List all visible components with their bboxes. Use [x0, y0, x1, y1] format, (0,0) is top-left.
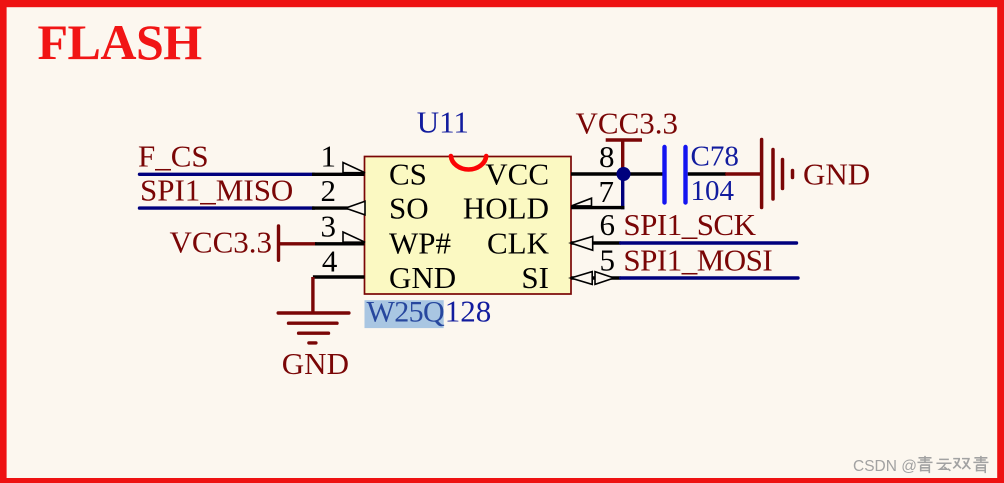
svg-text:104: 104 [691, 175, 735, 207]
svg-text:SPI1_MISO: SPI1_MISO [140, 172, 293, 207]
svg-text:GND: GND [389, 260, 456, 295]
svg-text:7: 7 [599, 174, 615, 209]
svg-text:5: 5 [600, 242, 616, 277]
svg-text:VCC3.3: VCC3.3 [576, 106, 679, 141]
svg-text:CS: CS [389, 157, 427, 192]
svg-text:WP#: WP# [389, 226, 451, 261]
svg-text:1: 1 [321, 139, 337, 174]
svg-text:SPI1_SCK: SPI1_SCK [623, 207, 756, 242]
svg-text:6: 6 [600, 207, 616, 242]
svg-text:3: 3 [321, 208, 337, 243]
svg-text:C78: C78 [691, 140, 739, 172]
svg-text:HOLD: HOLD [463, 191, 549, 226]
svg-text:VCC3.3: VCC3.3 [170, 225, 273, 260]
svg-text:VCC: VCC [485, 157, 549, 192]
svg-text:GND: GND [282, 346, 349, 381]
svg-text:FLASH: FLASH [38, 14, 203, 70]
svg-text:8: 8 [599, 139, 615, 174]
svg-text:GND: GND [803, 156, 870, 191]
svg-text:W25Q: W25Q [367, 296, 446, 329]
svg-text:SO: SO [389, 191, 429, 226]
svg-text:CLK: CLK [487, 226, 550, 261]
svg-text:U11: U11 [417, 105, 469, 140]
svg-text:128: 128 [445, 294, 492, 329]
svg-text:CSDN @: CSDN @ [853, 458, 917, 475]
svg-text:2: 2 [321, 173, 337, 208]
svg-text:SPI1_MOSI: SPI1_MOSI [623, 242, 772, 277]
svg-text:4: 4 [322, 244, 338, 279]
svg-text:F_CS: F_CS [138, 139, 209, 174]
svg-text:SI: SI [521, 260, 549, 295]
